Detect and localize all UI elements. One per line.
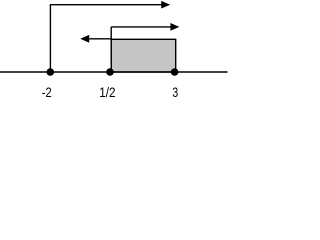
arrow A3: leftward from rectangle top-left [89, 38, 112, 40]
shaded interval rectangle from 1/2 to 3 [111, 39, 176, 72]
number line [0, 71, 228, 73]
node dot at -2 [47, 68, 55, 76]
node dot at 1/2 [106, 68, 114, 76]
wire: vertical riser at x=1/2 [110, 27, 112, 72]
svg-text:1/2: 1/2 [99, 84, 115, 100]
node dot at 3 [171, 68, 179, 76]
arrow A1: from -2 up and rightward [50, 4, 162, 6]
svg-text:-2: -2 [42, 84, 52, 100]
svg-text:3: 3 [172, 84, 178, 100]
wire: vertical riser at x=-2 [49, 5, 51, 72]
arrow A2: from 1/2 up and rightward [111, 26, 171, 28]
